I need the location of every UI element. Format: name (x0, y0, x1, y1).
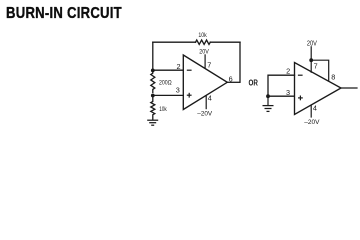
op-amp U2 minus sign (298, 74, 303, 76)
wire: left input rail top (152, 42, 154, 70)
svg-text:–20V: –20V (197, 111, 212, 118)
wire: pin 7 supply lead (left) (204, 54, 206, 68)
svg-text:2: 2 (286, 67, 290, 76)
node C: junction dot 20V to pins 7 and 8 (309, 58, 313, 62)
wire: pin 4 supply lead (right) (310, 105, 312, 118)
svg-text:7: 7 (207, 61, 211, 70)
wire: output (right) (341, 87, 358, 89)
svg-text:6: 6 (229, 74, 233, 83)
svg-text:OR: OR (249, 77, 259, 87)
svg-text:7: 7 (314, 62, 318, 71)
svg-text:2: 2 (177, 62, 181, 71)
resistor R1 10k (feedback) (196, 40, 211, 44)
svg-text:20V: 20V (199, 49, 209, 56)
node B: junction dot at non-inverting input (151, 94, 155, 98)
svg-text:8: 8 (331, 73, 335, 82)
ground (right circuit) (263, 106, 274, 112)
svg-text:–20V: –20V (304, 119, 320, 126)
op-amp U1 minus sign (187, 69, 192, 71)
wire: top feedback wire, right segment (210, 41, 240, 43)
svg-text:4: 4 (208, 94, 212, 103)
op-amp U2 triangle (295, 63, 342, 115)
wire: pin 2 tie down to ground rail (right) (268, 75, 295, 96)
resistor R3 10k (to ground) (151, 96, 155, 120)
wire: left circuit top feedback wire, left segment (153, 41, 196, 43)
svg-text:3: 3 (286, 88, 290, 97)
node D: junction dot at grounded inputs (266, 94, 270, 98)
op-amp U2 plus sign (298, 96, 303, 101)
wire: feedback vertical drop to output node (239, 42, 241, 82)
svg-text:3: 3 (176, 85, 180, 94)
wire: non-inverting node to pin 3 (153, 94, 184, 96)
wire: inverting node to pin 2 (153, 69, 184, 71)
wire: output pin 6 to feedback node (227, 81, 240, 83)
svg-text:10k: 10k (198, 32, 207, 39)
wire: jumper from 20V node to pin 8 (311, 60, 329, 81)
svg-text:4: 4 (313, 103, 317, 112)
svg-text:20V: 20V (307, 40, 317, 47)
svg-text:200Ω: 200Ω (159, 80, 172, 87)
wire: ground stub (267, 96, 269, 105)
wire: pin 3 to ground node (right) (268, 95, 295, 97)
resistor R2 200 ohm (151, 70, 155, 92)
wire: pin 7 supply lead (right) (310, 46, 312, 73)
title BURN-IN CIRCUIT (6, 5, 122, 23)
node A: junction dot at inverting input (151, 69, 155, 73)
wire: pin 4 supply lead (left) (205, 95, 207, 109)
ground (left circuit) (147, 120, 158, 125)
svg-text:10k: 10k (159, 106, 167, 113)
op-amp U1 triangle (183, 55, 227, 110)
op-amp U1 plus sign (187, 93, 192, 98)
